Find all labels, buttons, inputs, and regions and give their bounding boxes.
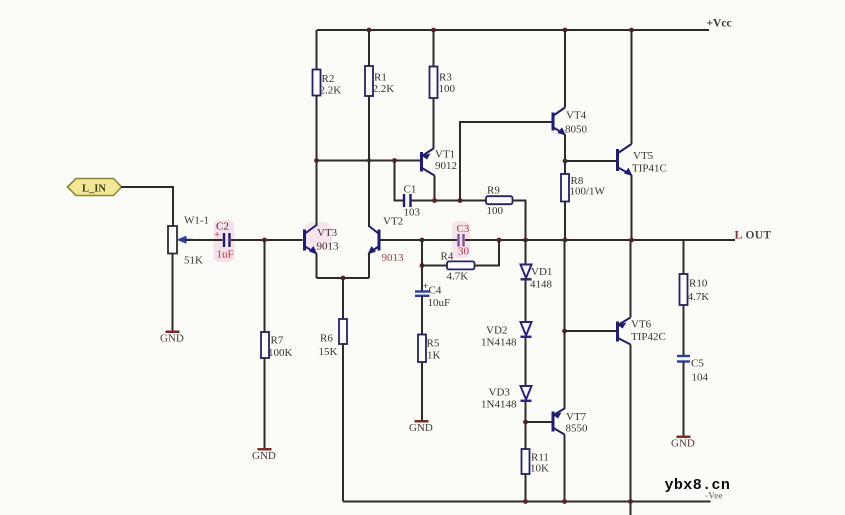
- svg-text:TIP41C: TIP41C: [632, 163, 667, 175]
- wire emitter join: [317, 277, 370, 279]
- wire top rail to R1: [368, 30, 370, 66]
- svg-text:C3: C3: [457, 223, 470, 235]
- transistor VT1: [422, 149, 435, 176]
- node VT1 collector junction: [432, 198, 437, 203]
- svg-text:1uF: 1uF: [217, 249, 234, 261]
- label R10 4.7K: [688, 291, 710, 303]
- wire VT6 node to VT7 emitter: [564, 331, 566, 409]
- wire VT3 emitter down: [316, 254, 318, 279]
- svg-text:VT6: VT6: [631, 319, 652, 331]
- wire VD3 to R11: [525, 402, 527, 449]
- svg-text:R1: R1: [374, 72, 387, 84]
- node VT2 collector cross: [367, 158, 371, 162]
- ground C5 GND: [671, 436, 695, 450]
- ground R7 GND: [252, 448, 276, 462]
- svg-text:VT1: VT1: [435, 149, 455, 161]
- node bus R4C3 junction: [497, 238, 502, 243]
- svg-text:8050: 8050: [565, 124, 588, 136]
- wire R8 bottom to bus: [564, 202, 566, 241]
- svg-text:TIP42C: TIP42C: [631, 331, 666, 343]
- label VT1 9012: [435, 160, 457, 172]
- node bottom rail R11: [523, 499, 528, 504]
- label 15K: [319, 346, 338, 358]
- wire VT2 base to bus: [381, 239, 423, 241]
- wire R11 to bottom rail: [525, 474, 527, 502]
- label C1 103: [404, 207, 421, 219]
- node VT1 base wire left junction: [314, 158, 319, 163]
- label R1: [374, 72, 387, 84]
- capacitor C5: [677, 356, 690, 362]
- svg-text:9012: 9012: [435, 160, 457, 172]
- svg-text:ybx8.cn: ybx8.cn: [665, 477, 731, 494]
- label VT5: [633, 150, 654, 162]
- node top rail junction VT5: [629, 28, 634, 33]
- wire VT6 base: [565, 330, 617, 332]
- wire bus down to R4 node: [421, 240, 423, 291]
- svg-text:+: +: [423, 281, 428, 291]
- label R2 2.2K: [320, 85, 342, 97]
- svg-text:R7: R7: [271, 335, 284, 347]
- node bus feedback junction: [420, 238, 425, 243]
- svg-text:100K: 100K: [268, 347, 293, 359]
- svg-text:VT4: VT4: [566, 110, 587, 122]
- svg-text:10uF: 10uF: [428, 297, 451, 309]
- wire R7 to ground: [264, 358, 266, 448]
- resistor R4: [447, 261, 475, 269]
- label R3 100: [439, 83, 456, 95]
- wire R9 to diode chain: [513, 201, 526, 241]
- svg-text:9013: 9013: [317, 241, 340, 253]
- svg-text:4.7K: 4.7K: [688, 291, 710, 303]
- label VT4 8050: [565, 124, 588, 136]
- label C1: [404, 184, 417, 196]
- node top rail junction VT4: [563, 28, 568, 33]
- svg-text:VT7: VT7: [566, 411, 587, 423]
- wire VD2 to VD3: [525, 338, 527, 386]
- svg-text:R10: R10: [689, 278, 708, 290]
- wire VT4 emitter down: [564, 135, 566, 162]
- svg-text:C5: C5: [691, 358, 704, 370]
- node VT6 base junction: [562, 329, 567, 334]
- wire VT1 collector down: [434, 176, 436, 201]
- label R4: [441, 251, 454, 263]
- label 51K: [184, 255, 203, 267]
- svg-text:1N4148: 1N4148: [481, 399, 517, 411]
- svg-text:GND: GND: [671, 438, 695, 450]
- transistor VT4: [553, 108, 566, 136]
- label VT3 9013: [317, 241, 340, 253]
- capacitor C2: [215, 230, 230, 248]
- label C3: [457, 223, 470, 235]
- svg-text:VT3: VT3: [317, 227, 338, 239]
- label VT2: [383, 216, 403, 228]
- wire R1 to VT2 collector: [368, 96, 370, 227]
- resistor R5: [418, 335, 426, 363]
- label VD2 1N4148: [481, 337, 517, 349]
- ground R5 GND: [409, 420, 433, 434]
- wire output bus right: [465, 239, 735, 241]
- label C5: [691, 358, 704, 370]
- transistor VT6: [617, 318, 631, 345]
- resistor R7: [261, 332, 269, 358]
- wire top rail to R3: [433, 30, 435, 67]
- svg-text:VT2: VT2: [383, 216, 403, 228]
- label VT2 9013: [382, 252, 405, 264]
- diode VD2: [521, 322, 532, 337]
- wire L_IN to potentiometer: [121, 187, 173, 226]
- node bus diode junction: [523, 238, 528, 243]
- label R1 2.2K: [373, 83, 395, 95]
- label VT3: [317, 227, 338, 239]
- resistor R3: [430, 67, 438, 99]
- resistor R1: [365, 66, 373, 96]
- node top rail junction R3: [431, 28, 436, 33]
- wire R7 branch: [264, 240, 266, 332]
- label VT4: [566, 110, 587, 122]
- wire C1 to R9: [412, 200, 487, 202]
- power -Vee: [705, 492, 723, 502]
- svg-text:W1-1: W1-1: [184, 215, 209, 227]
- svg-text:4148: 4148: [530, 279, 553, 291]
- svg-text:R3: R3: [439, 72, 452, 84]
- label R8 100/1W: [570, 186, 606, 198]
- wire VT5 collector to rail: [631, 30, 633, 144]
- label R6: [320, 333, 333, 345]
- svg-text:VD1: VD1: [531, 266, 552, 278]
- svg-text:4.7K: 4.7K: [447, 271, 469, 283]
- svg-text:100: 100: [439, 83, 456, 95]
- wire R4 left lead: [422, 265, 447, 267]
- node VT4 emitter junction: [563, 159, 568, 164]
- node bottom rail VT7: [562, 499, 567, 504]
- node bottom rail VT6: [628, 499, 633, 504]
- watermark ybx8.cn: [665, 477, 731, 494]
- label R9: [487, 185, 500, 197]
- capacitor C3: [459, 234, 464, 247]
- svg-text:C2: C2: [216, 221, 229, 233]
- transistor VT7: [553, 409, 565, 435]
- diode VD1: [521, 265, 532, 280]
- wire C4 to R5: [421, 296, 423, 335]
- diode VD3: [521, 386, 532, 401]
- label VT7 8550: [566, 423, 589, 435]
- wire VT2 emitter down: [368, 253, 370, 278]
- label VT1: [435, 149, 455, 161]
- svg-text:9013: 9013: [382, 252, 405, 264]
- node R4 left junction: [420, 263, 425, 268]
- node emitter join R6: [341, 276, 346, 281]
- port L_IN: [68, 179, 122, 196]
- label R5: [427, 338, 440, 350]
- label VT6 TIP42C: [631, 331, 666, 343]
- svg-text:15K: 15K: [319, 346, 338, 358]
- wire C1 branch: [395, 161, 404, 201]
- wire R6 to bottom rail: [342, 344, 344, 502]
- svg-text:L_IN: L_IN: [82, 184, 106, 195]
- node top rail junction R1: [367, 28, 372, 33]
- svg-text:100/1W: 100/1W: [570, 186, 606, 198]
- label R5 1K: [427, 350, 441, 362]
- wire VT4 collector to rail: [564, 30, 566, 108]
- wire R3 to VT1 emitter: [433, 98, 435, 149]
- wire R4 right lead: [475, 240, 500, 266]
- svg-text:VD2: VD2: [486, 325, 507, 337]
- svg-text:R4: R4: [441, 251, 454, 263]
- label 100K: [268, 347, 293, 359]
- label W1-1: [184, 215, 209, 227]
- wire top rail to R2: [316, 30, 318, 70]
- label R11: [531, 452, 549, 464]
- label C2: [216, 221, 229, 233]
- wire +Vcc top rail: [317, 29, 709, 31]
- svg-text:100: 100: [487, 205, 504, 217]
- wire VT7 collector to rail: [564, 435, 566, 502]
- label R9 100: [487, 205, 504, 217]
- label R3: [439, 72, 452, 84]
- label VD2: [486, 325, 507, 337]
- svg-text:C1: C1: [404, 184, 417, 196]
- svg-text:L: L: [735, 228, 743, 242]
- wire bus to R10: [683, 240, 685, 274]
- wire bus to VD1: [525, 240, 527, 265]
- svg-text:GND: GND: [252, 450, 276, 462]
- label C4: [429, 285, 442, 297]
- wire R8 top lead: [564, 161, 566, 174]
- node VT4 base branch junction: [458, 198, 463, 203]
- wire VT1 base net: [317, 160, 421, 162]
- svg-text:R6: R6: [320, 333, 333, 345]
- label R7: [271, 335, 284, 347]
- label VD3 1N4148: [481, 399, 517, 411]
- svg-text:R5: R5: [427, 338, 440, 350]
- capacitor C4: [415, 281, 430, 296]
- label R10: [689, 278, 708, 290]
- wire R6 top: [342, 278, 344, 319]
- label VD3: [489, 387, 511, 399]
- potentiometer W1-1: [168, 226, 193, 254]
- wire output bus left: [381, 239, 458, 241]
- transistor VT3: [305, 225, 318, 255]
- resistor R11: [522, 449, 530, 474]
- label VD1 4148: [530, 279, 553, 291]
- svg-text:8550: 8550: [566, 423, 589, 435]
- svg-text:VT5: VT5: [633, 150, 654, 162]
- svg-text:30: 30: [458, 246, 470, 258]
- svg-text:51K: 51K: [184, 255, 203, 267]
- label C3 30: [458, 246, 470, 258]
- resistor R2: [313, 70, 321, 96]
- wire R5 to ground: [421, 362, 423, 420]
- wire VT6 collector down: [630, 345, 632, 515]
- svg-text:C4: C4: [429, 285, 442, 297]
- svg-text:2.2K: 2.2K: [320, 85, 342, 97]
- label R11 10K: [530, 463, 549, 475]
- wire R10 to C5: [683, 305, 685, 355]
- wire VT5 emitter to bus: [631, 175, 633, 240]
- resistor R8: [561, 174, 569, 202]
- wire VT4 base: [460, 122, 552, 201]
- ground pot GND: [160, 331, 184, 345]
- resistor R9: [486, 196, 513, 204]
- svg-text:+Vcc: +Vcc: [707, 18, 732, 30]
- node C1 branch junction: [392, 158, 397, 163]
- label VT7: [566, 411, 587, 423]
- node bus R8 junction: [563, 238, 568, 243]
- label VT5 TIP41C: [632, 163, 667, 175]
- port L_OUT: [735, 228, 772, 242]
- label C4 10uF: [428, 297, 451, 309]
- svg-text:1N4148: 1N4148: [481, 337, 517, 349]
- node input bias junction: [262, 238, 267, 243]
- wire C5 to ground: [683, 362, 685, 436]
- wire potentiometer to ground: [172, 254, 174, 332]
- resistor R10: [680, 274, 688, 305]
- svg-text:104: 104: [692, 372, 709, 384]
- wire VT7 base: [526, 421, 552, 423]
- wire VD1 to VD2: [525, 281, 527, 323]
- svg-text:R9: R9: [487, 185, 500, 197]
- label 1uF: [217, 249, 234, 261]
- wire VT5 base: [565, 160, 616, 162]
- resistor R6: [339, 319, 347, 344]
- node VT7 base junction: [523, 420, 528, 425]
- wire VT6 emitter to bus: [630, 240, 632, 318]
- label R4 4.7K: [447, 271, 469, 283]
- label R8: [571, 175, 584, 187]
- wire R2 to VT3 collector: [316, 96, 318, 227]
- svg-text:OUT: OUT: [746, 230, 772, 242]
- node bus VT56 junction: [629, 238, 634, 243]
- svg-text:R2: R2: [322, 73, 335, 85]
- svg-text:1K: 1K: [427, 350, 441, 362]
- label VT6: [631, 319, 652, 331]
- transistor VT5: [618, 144, 633, 176]
- pink highlight marks: [214, 220, 471, 262]
- label VD1: [531, 266, 552, 278]
- wire wiper to C2: [185, 239, 223, 241]
- label R2: [322, 73, 335, 85]
- svg-text:GND: GND: [160, 333, 184, 345]
- svg-text:GND: GND: [409, 422, 433, 434]
- power +Vcc: [707, 18, 732, 30]
- svg-text:2.2K: 2.2K: [373, 83, 395, 95]
- wire -Vee bottom rail: [343, 501, 711, 503]
- wire C2 to VT3 base: [231, 239, 303, 241]
- svg-text:VD3: VD3: [489, 387, 511, 399]
- svg-text:10K: 10K: [530, 463, 549, 475]
- label C5 104: [692, 372, 709, 384]
- svg-text:103: 103: [404, 207, 421, 219]
- transistor VT2: [368, 226, 380, 255]
- capacitor C1: [404, 194, 411, 207]
- wire bus to VT6 base node: [564, 240, 566, 331]
